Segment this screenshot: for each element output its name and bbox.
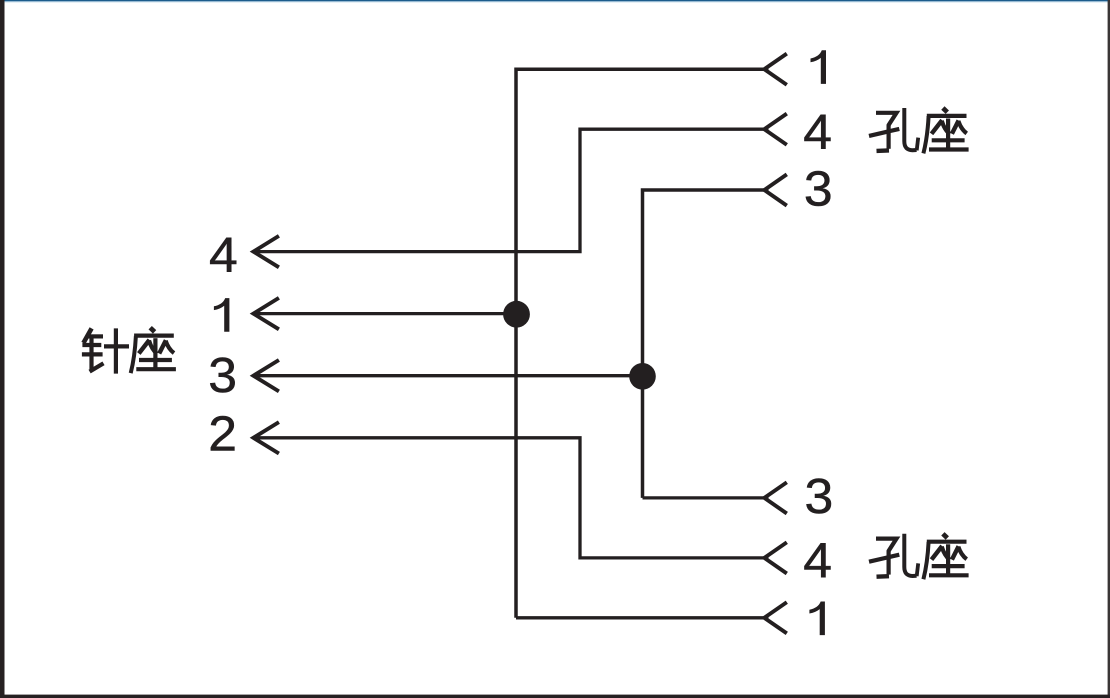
svg-text:3: 3 [804,161,833,216]
svg-text:3: 3 [805,468,834,523]
svg-text:2: 2 [208,406,237,461]
svg-text:3: 3 [208,347,237,402]
svg-text:4: 4 [803,533,832,588]
svg-text:4: 4 [803,104,832,159]
svg-text:4: 4 [209,227,238,282]
